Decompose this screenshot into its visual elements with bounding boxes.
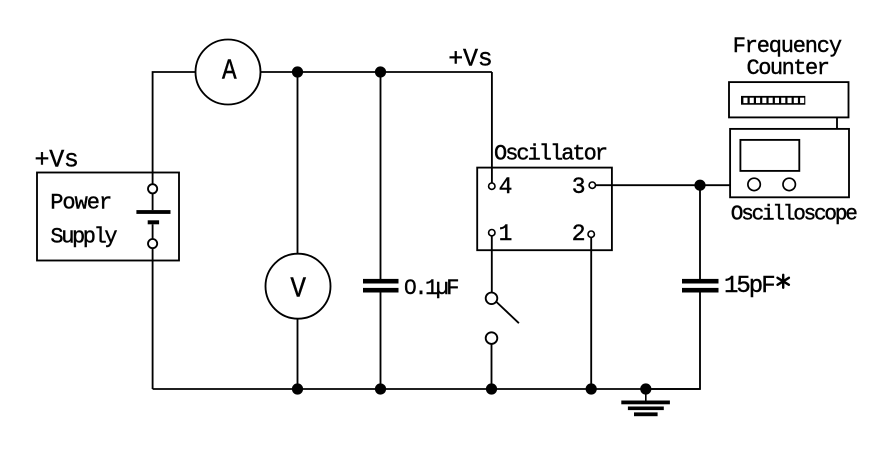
- svg-text:Counter: Counter: [747, 56, 829, 81]
- svg-text:+Vs: +Vs: [448, 45, 492, 74]
- wire: +Vs corner down to oscillator pin 4: [491, 72, 493, 183]
- wire: capacitor C1 to ground rail: [380, 293, 382, 390]
- oscilloscope knob 2: [783, 178, 795, 190]
- wire: node down to capacitor C1: [380, 72, 382, 279]
- oscilloscope screen: [740, 140, 799, 171]
- oscilloscope knob 1: [748, 178, 760, 190]
- wire: voltmeter bottom to ground rail: [297, 319, 299, 389]
- frequency counter box: [729, 82, 849, 117]
- junction: voltmeter at ground rail: [292, 383, 303, 394]
- switch S1: [486, 293, 519, 344]
- wire: capacitor C2 down and left to ground node: [646, 293, 700, 390]
- junction: node at C1 branch: [375, 66, 386, 77]
- wire: pin 2 down to ground rail: [590, 237, 592, 389]
- wire: power supply - terminal down to ground rail: [152, 248, 154, 389]
- power supply box: [37, 173, 179, 261]
- svg-text:Oscilloscope: Oscilloscope: [731, 203, 857, 226]
- wire: power supply + terminal up and to ammeter: [153, 72, 196, 184]
- svg-text:15pF: 15pF: [724, 273, 774, 300]
- capacitor C1: [363, 279, 399, 293]
- svg-text:A: A: [222, 56, 237, 88]
- oscilloscope box: [730, 129, 849, 197]
- pin 1 terminal: [489, 221, 513, 247]
- svg-text:2: 2: [572, 221, 586, 247]
- wire: node down to voltmeter: [297, 72, 299, 254]
- voltmeter V: [266, 254, 331, 319]
- pin 2 terminal: [572, 221, 595, 247]
- pin 3 terminal: [572, 174, 596, 200]
- battery B1 (inside power supply): [136, 184, 170, 248]
- svg-text:4: 4: [499, 174, 513, 200]
- ground symbol: [621, 389, 670, 416]
- frequency counter display: [741, 96, 805, 105]
- connector: counter to oscilloscope: [836, 117, 838, 128]
- wire: pin 1 down to switch: [491, 236, 493, 293]
- svg-text:Oscillator: Oscillator: [494, 142, 607, 167]
- wire: pin 3 to oscilloscope: [596, 184, 731, 186]
- pin 4 terminal: [489, 174, 513, 200]
- svg-text:1: 1: [499, 221, 513, 247]
- junction: pin 2 at ground rail: [586, 383, 597, 394]
- wire: node down to capacitor C2: [699, 185, 701, 279]
- junction: ground symbol node: [640, 383, 651, 394]
- wire: switch to ground rail: [491, 344, 493, 389]
- junction: C1 at ground rail: [375, 383, 386, 394]
- oscillator U1 box: [477, 168, 612, 251]
- svg-text:V: V: [290, 274, 306, 307]
- svg-text:+Vs: +Vs: [35, 146, 79, 175]
- wire: ammeter to +Vs corner: [261, 71, 492, 73]
- svg-text:Supply: Supply: [50, 225, 117, 250]
- svg-text:3: 3: [572, 174, 586, 200]
- junction: oscilloscope / C2 node: [694, 180, 705, 191]
- capacitor C2: [682, 279, 719, 293]
- wire: ground rail (bottom): [153, 388, 700, 390]
- svg-text:Power: Power: [50, 191, 111, 216]
- junction: switch at ground rail: [486, 383, 497, 394]
- junction: node at voltmeter branch: [292, 66, 303, 77]
- ammeter A: [196, 40, 261, 105]
